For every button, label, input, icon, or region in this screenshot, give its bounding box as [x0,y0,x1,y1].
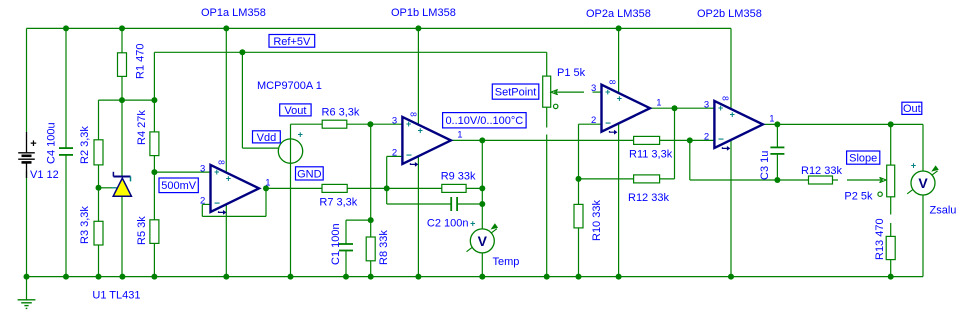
svg-text:P2 5k: P2 5k [844,191,873,203]
svg-text:+: + [605,87,610,97]
svg-text:2: 2 [200,195,205,206]
svg-text:U1 TL431: U1 TL431 [92,290,140,302]
svg-text:R4 27k: R4 27k [136,110,148,145]
svg-text:−: − [406,151,412,162]
svg-text:+: + [730,110,735,120]
svg-text:C1 100n: C1 100n [330,223,342,265]
svg-text:R10 33k: R10 33k [591,200,603,241]
svg-text:2: 2 [591,115,596,126]
svg-text:R7 3,3k: R7 3,3k [319,197,357,209]
svg-text:R13 470: R13 470 [874,218,886,260]
svg-text:C3 1u: C3 1u [759,151,771,180]
svg-text:2: 2 [392,147,397,158]
svg-text:−: − [214,199,220,210]
svg-text:Out: Out [903,103,921,115]
svg-text:+: + [617,93,622,103]
svg-text:R6 3,3k: R6 3,3k [322,107,360,119]
svg-text:Zsalu: Zsalu [930,204,957,216]
svg-text:R12 33k: R12 33k [628,192,669,204]
svg-text:500mV: 500mV [161,180,197,192]
svg-text:+: + [406,119,411,129]
svg-text:+: + [214,167,219,177]
svg-text:3: 3 [591,83,596,94]
svg-text:OP2b LM358: OP2b LM358 [697,8,762,20]
svg-text:−: − [718,135,724,146]
svg-text:Vdd: Vdd [257,132,277,144]
svg-text:C2 100n: C2 100n [427,218,469,230]
svg-text:+: + [718,103,723,113]
svg-text:Ref+5V: Ref+5V [273,36,311,48]
svg-text:R12 33k: R12 33k [801,165,842,177]
svg-text:R3 3,3k: R3 3,3k [79,206,91,244]
svg-text:Temp: Temp [493,256,520,268]
svg-text:Vout: Vout [284,105,306,117]
svg-text:3: 3 [392,115,397,126]
svg-text:V: V [478,233,488,249]
svg-text:GND: GND [297,168,322,180]
svg-text:R2 3,3k: R2 3,3k [79,126,91,164]
svg-text:+: + [418,126,423,136]
svg-text:1: 1 [656,97,661,108]
svg-text:R11 3,3k: R11 3,3k [629,149,673,161]
svg-text:1: 1 [457,130,462,141]
svg-text:+: + [298,129,303,139]
svg-text:OP2a LM358: OP2a LM358 [586,8,651,20]
svg-text:8: 8 [720,96,730,101]
svg-text:3: 3 [200,163,205,174]
svg-text:V1 12: V1 12 [30,169,59,181]
svg-text:SetPoint: SetPoint [495,87,537,99]
svg-text:+: + [30,138,36,150]
svg-text:2: 2 [704,131,709,142]
svg-text:C4 100u: C4 100u [46,122,58,164]
svg-text:1: 1 [769,114,774,125]
svg-text:R9 33k: R9 33k [441,171,476,183]
svg-text:R1 470: R1 470 [135,44,147,79]
svg-text:8: 8 [217,160,227,165]
svg-text:P1 5k: P1 5k [557,67,586,79]
svg-text:R8 33k: R8 33k [378,230,390,265]
svg-text:0..10V/0..100°C: 0..10V/0..100°C [445,115,523,127]
svg-text:+: + [226,174,231,184]
svg-text:OP1b LM358: OP1b LM358 [391,7,456,19]
svg-text:8: 8 [408,112,418,117]
svg-text:8: 8 [608,80,618,85]
svg-text:3: 3 [704,99,709,110]
svg-text:+: + [470,218,475,228]
svg-text:OP1a LM358: OP1a LM358 [201,7,266,19]
svg-text:−: − [605,118,611,129]
svg-text:R5 3k: R5 3k [136,216,148,245]
svg-text:Slope: Slope [849,153,877,165]
svg-text:V: V [918,175,928,191]
svg-text:MCP9700A 1: MCP9700A 1 [257,80,322,92]
svg-text:+: + [911,161,916,171]
